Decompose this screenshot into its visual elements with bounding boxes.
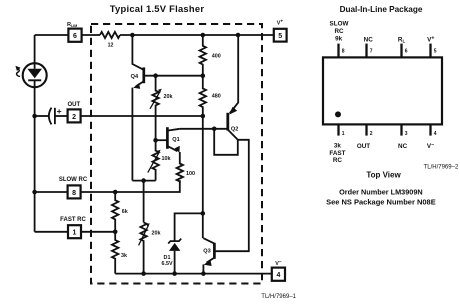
node D1 / Q3 collector [201,211,206,216]
svg-text:TL/H/7969–1: TL/H/7969–1 [261,294,296,300]
label pin8 SLOW RC 9k [330,20,349,42]
svg-text:SLOW RC: SLOW RC [59,177,88,183]
variable resistor 20k upper [150,76,173,141]
svg-text:V−: V− [427,142,434,150]
node rail / Q3 emitter [201,271,206,276]
svg-text:10k: 10k [162,156,171,162]
pin 5 stub [431,44,437,58]
wire OUT line [81,115,203,117]
label pin5 V+ [427,35,434,43]
label RLIM [67,22,77,28]
pin 6 stub [402,44,408,58]
svg-text:12: 12 [108,43,114,49]
svg-text:480: 480 [212,94,221,100]
svg-text:20k: 20k [164,94,173,100]
svg-text:V+: V+ [427,35,434,43]
svg-text:Top View: Top View [366,170,401,179]
pin 1 box [68,225,81,238]
wire Q4 base line [144,75,203,77]
pin 7 stub [367,44,373,58]
LED light arrows [15,66,20,77]
label pin2 OUT [357,143,370,150]
pin 2 stub [367,124,373,136]
node Q2 base / loop [212,127,217,132]
caption Top View [366,170,401,179]
svg-text:5: 5 [278,33,282,40]
svg-text:Q1: Q1 [172,137,179,143]
IC boundary dashed box [91,24,262,284]
svg-text:6.5V: 6.5V [161,261,172,267]
pin 5 box [274,29,287,42]
left vertical wire [34,80,36,232]
svg-text:400: 400 [212,53,221,59]
svg-text:3: 3 [405,131,408,137]
svg-text:V+: V+ [277,20,284,27]
node OUT / 480 bottom [201,114,206,119]
svg-text:9k: 9k [335,36,343,43]
svg-text:Order Number LM3909N: Order Number LM3909N [339,188,423,197]
svg-text:Typical 1.5V Flasher: Typical 1.5V Flasher [110,3,205,14]
pin 4 box [272,268,285,281]
svg-text:RC: RC [333,157,343,164]
label SLOW RC [59,177,88,183]
pin 1 indicator dot [335,111,341,117]
wire FAST RC line [81,231,115,233]
variable resistor 10k [148,140,171,180]
label V- [275,260,282,267]
node rail / 20k [141,271,146,276]
wire SLOW RC line [81,180,180,192]
wire D1 branch [175,213,203,240]
wire capacitor to pin 2 [55,115,68,117]
label pin6 RL [398,36,406,43]
node top rail / Q2 emitter [236,33,241,38]
svg-text:3k: 3k [121,253,127,259]
node rail / D1 [172,271,177,276]
svg-text:6: 6 [73,33,77,40]
svg-text:OUT: OUT [357,143,370,150]
svg-text:OUT: OUT [67,102,80,108]
svg-text:NC: NC [364,37,374,44]
svg-text:NC: NC [398,143,408,150]
svg-text:8: 8 [342,48,345,54]
svg-text:TL/H/7969–2: TL/H/7969–2 [424,164,459,170]
top rail wire [120,34,274,36]
svg-text:RL: RL [398,36,406,43]
label pin7 NC [364,37,374,44]
pin 8 stub [339,44,345,58]
node top rail / 400 resistor [201,33,206,38]
svg-text:Dual-In-Line Package: Dual-In-Line Package [340,5,423,14]
wire Q4 emitter elbow to 10k bottom [132,180,155,182]
label V+ [277,20,284,27]
svg-text:See NS Package Number N08E: See NS Package Number N08E [326,198,436,207]
wire pin6 to resistor 12 [82,34,100,36]
pin 2 box [68,109,81,122]
wire Q2 collector-base loop [214,129,238,155]
figure tag TL/H/7969-1 [261,294,296,300]
svg-text:2: 2 [72,114,76,121]
svg-text:+: + [57,106,62,116]
zener diode D1 6.5V [161,239,181,274]
label pin4 V- [427,142,434,150]
resistor 3k [112,232,127,274]
figure tag TL/H/7969-2 [424,164,459,170]
node FAST RC / 6k 3k [113,230,118,235]
bottom rail wire [115,273,272,275]
caption See NS Package [326,198,436,207]
node LED / SLOW RC [32,190,37,195]
label pin3 NC [398,143,408,150]
svg-text:5: 5 [434,49,437,55]
node base line / 20k top [153,73,158,78]
pin 8 box [68,185,81,198]
svg-text:3k: 3k [334,143,342,150]
svg-text:1: 1 [73,230,77,237]
wire Q1 collector to Q2 base [180,128,228,130]
transistor Q1 [156,127,180,153]
transistor Q2 [228,35,239,140]
label OUT [67,102,80,108]
svg-text:100: 100 [186,171,195,177]
svg-text:FAST RC: FAST RC [60,217,86,223]
svg-text:RLIM: RLIM [67,22,77,28]
wire node to lower 20k [143,181,145,223]
variable resistor 20k lower [139,222,161,273]
pin 4 stub [431,124,437,136]
wire to capacitor [35,115,49,117]
svg-text:20k: 20k [152,231,161,237]
node elbow / 20k lower [141,178,146,183]
svg-text:6: 6 [405,49,408,55]
node LED / OUT [32,114,37,119]
wire Q2 collector to Q3 base [215,140,248,251]
svg-text:D1: D1 [164,255,171,261]
DIP title [340,5,423,14]
node 20k / 10k / Q1 base [153,138,158,143]
pin 6 box [68,29,81,42]
LED D2 [23,63,47,87]
svg-text:Q2: Q2 [231,126,238,132]
svg-text:8: 8 [72,190,76,197]
svg-text:SLOW: SLOW [330,20,349,27]
svg-text:Q3: Q3 [203,249,210,255]
capacitor C1 [49,106,62,125]
wire FAST RC to pin 1 [35,231,68,233]
svg-text:7: 7 [370,49,373,55]
pin 3 stub [402,124,408,136]
wire LED top to pin 6 [35,35,69,69]
svg-text:1: 1 [342,131,345,137]
pin 1 stub [339,124,345,136]
label FAST RC [60,217,86,223]
resistor 480 [200,76,221,116]
node base line / between 400 480 [201,73,206,78]
svg-text:V−: V− [275,260,282,267]
svg-text:4: 4 [434,131,437,137]
caption Order Number [339,188,423,197]
svg-text:2: 2 [370,131,373,137]
resistor 400 [200,35,221,76]
label pin1 3k FAST RC [329,143,345,164]
resistor R 12 [100,32,120,49]
node top rail / Q4 collector [130,33,135,38]
schematic title [110,3,205,14]
resistor 100 [177,152,195,182]
svg-text:Q4: Q4 [131,74,139,80]
svg-text:4: 4 [276,272,280,279]
transistor Q3 [203,238,214,273]
node SLOW RC / 6k [113,190,118,195]
wire SLOW RC to pin 8 [35,191,68,193]
wire node to Q3 collector [202,213,204,238]
transistor Q4 [131,35,144,181]
DIP body [323,57,442,124]
svg-text:RC: RC [334,28,344,35]
svg-text:6k: 6k [122,209,128,215]
wire 480 bottom to D1 node [202,116,204,213]
resistor 6k [112,192,128,232]
